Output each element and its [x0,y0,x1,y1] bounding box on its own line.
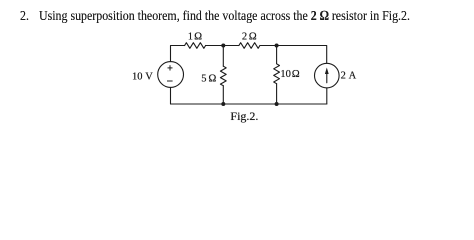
svg-text:Ω: Ω [208,73,216,84]
wire node B down to 10-ohm resistor [276,46,278,64]
wire 5-ohm resistor to bottom node C [222,86,224,104]
svg-text:V: V [145,72,153,83]
label 1 ohm [188,31,202,42]
wire 10-ohm resistor to bottom node D [276,84,278,104]
node A junction dot [221,44,225,48]
node D junction dot [275,102,279,106]
voltage source minus sign [167,80,173,82]
svg-text:2: 2 [341,70,346,81]
wire from 2-ohm resistor to node B [260,45,277,47]
label 10 V [132,72,153,83]
svg-text:1: 1 [188,31,193,42]
wire from 1-ohm resistor to node A [206,45,224,47]
wire node A down to 5-ohm resistor [222,46,224,67]
svg-text:10: 10 [132,72,143,83]
current source I1 circle (2 A) [315,63,340,88]
svg-text:Ω: Ω [194,31,202,42]
label 10 ohm [280,69,299,80]
wire current source bottom lead [326,88,328,104]
svg-text:A: A [349,70,357,81]
wire top-left from voltage source to 1-ohm resistor [171,46,185,62]
label 2 ohm [242,31,257,42]
current source arrow shaft [326,72,328,83]
wire voltage source bottom lead [170,87,172,104]
node C junction dot [221,102,225,106]
voltage source plus sign [168,65,173,70]
svg-text:2: 2 [242,31,247,42]
problem statement text [19,9,21,11]
node B junction dot [275,44,279,48]
resistor 10 ohm [274,64,280,84]
svg-text:10: 10 [280,69,291,80]
current source arrowhead [325,68,329,75]
resistor 2 ohm [239,43,260,49]
label 5 ohm [201,73,216,84]
svg-text:5: 5 [201,73,206,84]
wire from node A to 2-ohm resistor [223,45,239,47]
resistor 1 ohm [185,43,206,49]
resistor 5 ohm [220,66,226,86]
svg-text:Fig.2.: Fig.2. [230,109,258,123]
wire bottom rail [171,103,327,105]
voltage source V1 circle (10 V) [158,62,184,88]
svg-text:Ω: Ω [292,69,300,80]
label 2 A [341,70,357,81]
wire top-right from node B to current source [277,46,327,64]
svg-text:Ω: Ω [249,31,257,42]
